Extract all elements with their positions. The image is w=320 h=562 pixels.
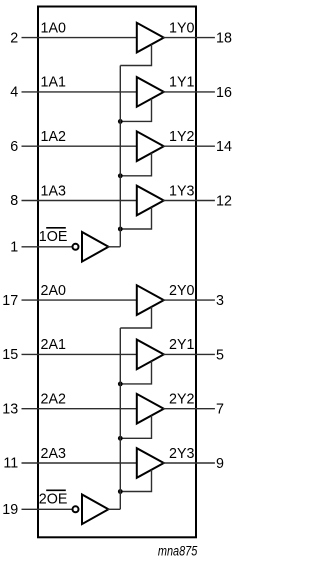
- svg-text:1OE: 1OE: [39, 229, 68, 245]
- wire pin 2 to buffer 1Y0 input: [22, 37, 138, 39]
- svg-text:2Y3: 2Y3: [169, 446, 194, 462]
- wire pin 17 to buffer 2Y0 input: [22, 299, 138, 301]
- wire buffer 2Y3 output to pin 9: [163, 462, 215, 464]
- enable bus 2OE vertical: [119, 328, 121, 509]
- svg-text:2Y2: 2Y2: [169, 392, 194, 408]
- label 1OE with overline: [39, 228, 68, 245]
- svg-text:18: 18: [216, 31, 232, 47]
- junction dot on enable bus at 2Y3: [118, 489, 123, 494]
- svg-text:2A2: 2A2: [41, 392, 66, 408]
- svg-text:1Y3: 1Y3: [169, 183, 194, 199]
- wire pin 1 to 1OE inverter input: [22, 246, 73, 248]
- svg-text:15: 15: [2, 347, 18, 363]
- wire pin 6 to buffer 1Y2 input: [22, 145, 138, 147]
- inverter triangle 1OE: [82, 232, 109, 262]
- svg-text:2Y0: 2Y0: [169, 283, 194, 299]
- svg-text:mna875: mna875: [158, 543, 198, 559]
- svg-text:2: 2: [10, 30, 18, 46]
- inverter bubble 1OE: [73, 244, 79, 250]
- wire enable stub buffer 1Y1: [120, 99, 151, 122]
- inverter bubble 2OE: [73, 506, 79, 512]
- wire pin 4 to buffer 1Y1 input: [22, 91, 138, 93]
- wire buffer 2Y2 output to pin 7: [163, 408, 215, 410]
- buffer 2Y0 (3-state): [137, 285, 164, 315]
- buffer 1Y3 (3-state): [137, 186, 164, 216]
- wire buffer 1Y2 output to pin 14: [163, 145, 215, 147]
- svg-text:4: 4: [10, 85, 18, 101]
- svg-text:2A0: 2A0: [41, 283, 66, 299]
- wire pin 15 to buffer 2Y1 input: [22, 353, 138, 355]
- svg-text:6: 6: [10, 139, 18, 155]
- svg-text:1A3: 1A3: [41, 183, 66, 199]
- junction dot on enable bus at 2Y2: [118, 436, 123, 441]
- svg-text:1A1: 1A1: [41, 75, 66, 91]
- wire enable stub buffer 2Y0: [120, 307, 151, 328]
- label 2OE with overline: [39, 490, 68, 507]
- svg-text:1Y2: 1Y2: [169, 129, 194, 145]
- svg-text:17: 17: [2, 293, 18, 309]
- svg-text:2Y1: 2Y1: [169, 337, 194, 353]
- buffer 2Y2 (3-state): [137, 394, 164, 424]
- wire enable stub buffer 1Y0: [120, 44, 151, 65]
- wire pin 8 to buffer 1Y3 input: [22, 200, 138, 202]
- wire pin 11 to buffer 2Y3 input: [22, 462, 138, 464]
- wire buffer 1Y1 output to pin 16: [163, 91, 215, 93]
- wire buffer 1Y3 output to pin 12: [163, 200, 215, 202]
- wire enable stub buffer 2Y3: [120, 470, 151, 492]
- junction dot on enable bus at 1Y2: [118, 173, 123, 178]
- svg-text:2OE: 2OE: [39, 492, 68, 508]
- svg-text:5: 5: [216, 347, 224, 363]
- buffer 2Y3 (3-state): [137, 448, 164, 478]
- wire buffer 1Y0 output to pin 18: [163, 37, 215, 39]
- svg-text:12: 12: [216, 194, 232, 210]
- svg-text:2A3: 2A3: [41, 446, 66, 462]
- buffer 1Y1 (3-state): [137, 77, 164, 107]
- svg-text:11: 11: [3, 456, 18, 472]
- svg-text:3: 3: [216, 293, 224, 309]
- junction dot on enable bus at 2Y1: [118, 382, 123, 387]
- svg-text:1Y0: 1Y0: [169, 20, 194, 36]
- junction dot on enable bus at 1Y3: [118, 227, 123, 232]
- wire buffer 2Y0 output to pin 3: [163, 299, 215, 301]
- wire pin 19 to 2OE inverter input: [22, 508, 73, 510]
- svg-text:1A0: 1A0: [41, 20, 66, 36]
- buffer 1Y2 (3-state): [137, 131, 164, 161]
- svg-text:1Y1: 1Y1: [169, 75, 194, 91]
- inverter triangle 2OE: [82, 495, 109, 525]
- wire enable stub buffer 1Y2: [120, 153, 151, 176]
- junction dot on enable bus at 1Y1: [118, 119, 123, 124]
- wire pin 13 to buffer 2Y2 input: [22, 408, 138, 410]
- svg-text:9: 9: [216, 456, 224, 472]
- wire enable stub buffer 2Y1: [120, 361, 151, 384]
- wire buffer 2Y1 output to pin 5: [163, 353, 215, 355]
- enable bus 1OE vertical: [119, 66, 121, 247]
- svg-text:19: 19: [2, 502, 18, 518]
- svg-text:7: 7: [216, 402, 224, 418]
- buffer 2Y1 (3-state): [137, 340, 164, 370]
- svg-text:14: 14: [216, 139, 232, 155]
- svg-text:13: 13: [2, 401, 18, 417]
- svg-text:1A2: 1A2: [41, 129, 66, 145]
- svg-text:2A1: 2A1: [41, 337, 66, 353]
- wire enable stub buffer 1Y3: [120, 207, 151, 229]
- IC outline box: [38, 7, 196, 538]
- svg-text:16: 16: [216, 85, 232, 101]
- buffer 1Y0 (3-state): [137, 23, 164, 53]
- svg-text:1: 1: [10, 240, 18, 256]
- wire enable stub buffer 2Y2: [120, 415, 151, 438]
- wire 1OE output to enable bus: [108, 246, 121, 248]
- wire 2OE output to enable bus: [108, 508, 121, 510]
- svg-text:8: 8: [10, 193, 18, 209]
